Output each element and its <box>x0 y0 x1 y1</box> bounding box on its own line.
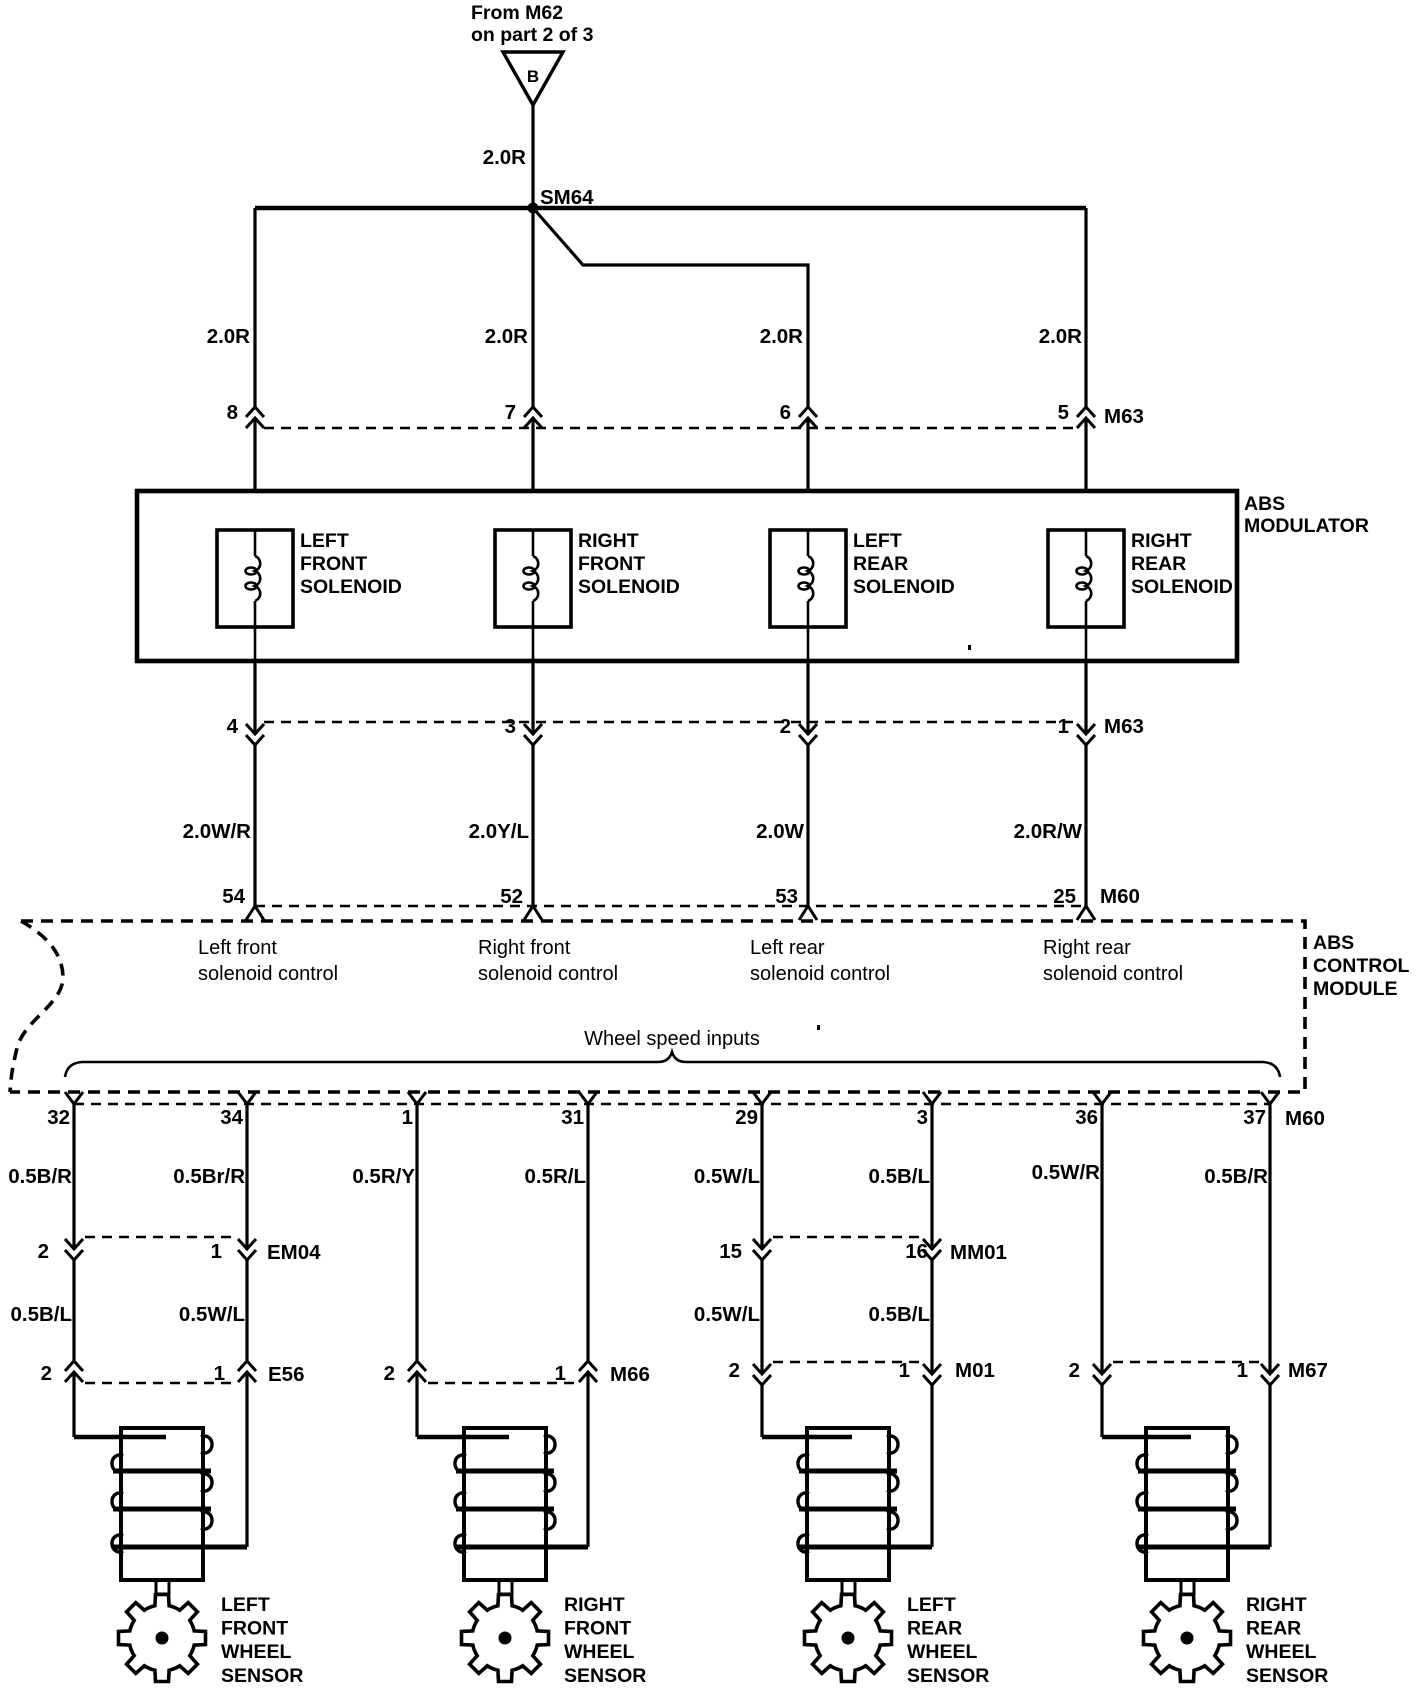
svg-text:2.0R/W: 2.0R/W <box>1014 820 1083 843</box>
svg-text:RIGHT: RIGHT <box>1131 530 1192 552</box>
svg-text:SOLENOID: SOLENOID <box>1131 576 1233 598</box>
connector MM01 pin 15 <box>753 1239 771 1260</box>
svg-text:WHEEL: WHEEL <box>907 1641 978 1663</box>
svg-text:31: 31 <box>561 1106 584 1129</box>
connector M63 pin 1 <box>1077 724 1095 745</box>
svg-text:FRONT: FRONT <box>578 553 645 575</box>
sensor RIGHT FRONT WHEEL SENSOR tone wheel <box>462 1595 549 1682</box>
brace: wheel speed inputs <box>65 1052 1280 1077</box>
wire: modulator out col 1 <box>253 661 256 734</box>
svg-text:SOLENOID: SOLENOID <box>300 576 402 598</box>
svg-text:0.5W/R: 0.5W/R <box>1032 1161 1101 1184</box>
connector M63 pin 6 <box>799 407 817 428</box>
solenoid coil RIGHT REAR SOLENOID <box>1077 530 1092 661</box>
svg-text:SENSOR: SENSOR <box>1246 1665 1328 1687</box>
svg-text:ABS: ABS <box>1313 932 1354 954</box>
connector M60 pin 32 <box>65 1092 83 1104</box>
svg-text:37: 37 <box>1243 1106 1266 1129</box>
svg-text:2: 2 <box>38 1240 49 1263</box>
svg-text:5: 5 <box>1058 401 1069 424</box>
svg-text:2: 2 <box>384 1362 395 1385</box>
svg-text:0.5R/L: 0.5R/L <box>524 1165 586 1188</box>
svg-text:34: 34 <box>220 1106 243 1129</box>
svg-text:0.5W/L: 0.5W/L <box>179 1303 245 1326</box>
svg-text:0.5Br/R: 0.5Br/R <box>173 1165 245 1188</box>
svg-text:0.5W/L: 0.5W/L <box>694 1165 760 1188</box>
svg-text:LEFT: LEFT <box>853 530 902 552</box>
svg-text:15: 15 <box>719 1240 742 1263</box>
connector M60 pin 3 <box>923 1092 941 1104</box>
wire: from LEFT FRONT WHEEL SENSOR (right lead) <box>245 1372 248 1547</box>
connector M60 pin 52 <box>524 906 542 920</box>
svg-text:0.5B/L: 0.5B/L <box>868 1303 930 1326</box>
sensor LEFT REAR WHEEL SENSOR tone wheel hub dot <box>842 1632 855 1645</box>
connector M60 pin 34 <box>238 1092 256 1104</box>
connector M60 pin 25 <box>1077 906 1095 920</box>
svg-text:29: 29 <box>735 1106 758 1129</box>
connector M67 pin 2 <box>1093 1364 1111 1385</box>
svg-text:1: 1 <box>1058 715 1069 738</box>
connector M63 pin 8 <box>246 407 264 428</box>
svg-text:WHEEL: WHEEL <box>221 1641 292 1663</box>
svg-text:SENSOR: SENSOR <box>907 1665 989 1687</box>
sensor LEFT FRONT WHEEL SENSOR stem <box>156 1580 169 1594</box>
sensor LEFT REAR WHEEL SENSOR winding <box>799 1471 932 1547</box>
wire: bus drop to pin 8 <box>253 208 256 407</box>
scan speck <box>968 645 971 650</box>
svg-text:Wheel speed inputs: Wheel speed inputs <box>584 1028 760 1050</box>
connector MM01 pin 16 <box>923 1239 941 1260</box>
svg-text:Right front: Right front <box>478 937 571 959</box>
svg-text:M01: M01 <box>955 1359 995 1382</box>
svg-text:solenoid control: solenoid control <box>750 963 890 985</box>
wire: RIGHT FRONT WHEEL SENSOR left lead horizontal <box>417 1435 509 1440</box>
svg-text:solenoid control: solenoid control <box>478 963 618 985</box>
connector M60 dashed line (module bottom) <box>74 1103 1270 1106</box>
sensor RIGHT REAR WHEEL SENSOR stem <box>1181 1580 1194 1594</box>
svg-text:1: 1 <box>214 1362 225 1385</box>
connector M66 dashed line <box>428 1382 577 1385</box>
connector M63 pin 2 <box>799 724 817 745</box>
svg-text:1: 1 <box>555 1362 566 1385</box>
svg-text:54: 54 <box>222 885 245 908</box>
svg-text:LEFT: LEFT <box>907 1594 956 1616</box>
solenoid coil LEFT FRONT SOLENOID <box>246 530 261 661</box>
wire: modulator out col 3 <box>806 661 809 734</box>
wire: 0.5B/L <box>930 1104 933 1248</box>
wire: 0.5R/Y <box>415 1104 418 1361</box>
svg-text:0.5B/L: 0.5B/L <box>868 1165 930 1188</box>
solenoid RIGHT FRONT SOLENOID box <box>495 530 571 627</box>
connector E56 pin 2 <box>65 1361 83 1382</box>
wire: modulator out col 4 <box>1084 661 1087 734</box>
wire: to RIGHT REAR WHEEL SENSOR (left lead) <box>1100 1385 1103 1437</box>
connector M63 pin 3 <box>524 724 542 745</box>
wire: from RIGHT REAR WHEEL SENSOR (right lead) <box>1268 1385 1271 1547</box>
solenoid coil RIGHT FRONT SOLENOID <box>524 530 539 661</box>
wire: pin into ABS modulator col 1 <box>253 418 256 493</box>
connector M63 pin 4 <box>246 724 264 745</box>
sensor LEFT REAR WHEEL SENSOR tone wheel <box>805 1595 892 1682</box>
svg-text:1: 1 <box>899 1359 910 1382</box>
svg-text:2.0R: 2.0R <box>485 325 528 348</box>
svg-text:SENSOR: SENSOR <box>221 1665 303 1687</box>
svg-text:2: 2 <box>780 715 791 738</box>
wire: 0.5B/R <box>72 1104 75 1248</box>
sensor RIGHT FRONT WHEEL SENSOR stem <box>499 1580 512 1594</box>
svg-text:32: 32 <box>47 1106 70 1129</box>
splice SM64 junction dot <box>528 203 539 214</box>
sensor LEFT FRONT WHEEL SENSOR tone wheel hub dot <box>156 1632 169 1645</box>
svg-text:36: 36 <box>1075 1106 1098 1129</box>
wire: 2.0R/W to control module <box>1084 745 1087 906</box>
svg-text:WHEEL: WHEEL <box>1246 1641 1317 1663</box>
svg-text:RIGHT: RIGHT <box>578 530 639 552</box>
connector M60 pin 53 <box>799 906 817 920</box>
connector M67 pin 1 <box>1261 1364 1279 1385</box>
svg-text:0.5B/R: 0.5B/R <box>1204 1165 1268 1188</box>
svg-text:EM04: EM04 <box>267 1241 321 1264</box>
svg-text:1: 1 <box>211 1240 222 1263</box>
off-page connector triangle B <box>503 52 563 105</box>
wire: from RIGHT FRONT WHEEL SENSOR (right lead) <box>586 1372 589 1547</box>
svg-text:LEFT: LEFT <box>300 530 349 552</box>
connector M63 dashed line (lower row) <box>264 721 1077 724</box>
wire: LEFT FRONT WHEEL SENSOR left lead horizontal <box>74 1435 166 1440</box>
svg-text:3: 3 <box>917 1106 928 1129</box>
svg-text:Left rear: Left rear <box>750 937 825 959</box>
svg-text:1: 1 <box>1237 1359 1248 1382</box>
svg-text:1: 1 <box>402 1106 413 1129</box>
svg-text:0.5B/L: 0.5B/L <box>10 1303 72 1326</box>
svg-text:REAR: REAR <box>907 1618 962 1640</box>
svg-text:M66: M66 <box>610 1363 650 1386</box>
solenoid RIGHT REAR SOLENOID box <box>1048 530 1124 627</box>
wire: 0.5W/L <box>760 1259 763 1374</box>
connector M63 pin 5 <box>1077 407 1095 428</box>
svg-text:0.5R/Y: 0.5R/Y <box>352 1165 415 1188</box>
svg-text:52: 52 <box>500 885 523 908</box>
wire: bus drop to pin 5 <box>1084 208 1087 407</box>
svg-text:6: 6 <box>780 401 791 424</box>
connector EM04 dashed line <box>85 1236 236 1239</box>
svg-text:solenoid control: solenoid control <box>198 963 338 985</box>
svg-text:B: B <box>527 67 539 86</box>
wire: to LEFT FRONT WHEEL SENSOR (left lead) <box>72 1372 75 1437</box>
connector M60 pin 31 <box>579 1092 597 1104</box>
wire: 0.5B/L <box>930 1259 933 1374</box>
svg-text:8: 8 <box>227 401 238 424</box>
wire: 0.5Br/R <box>245 1104 248 1248</box>
svg-text:ABS: ABS <box>1244 493 1285 515</box>
svg-text:53: 53 <box>775 885 798 908</box>
svg-text:SENSOR: SENSOR <box>564 1665 646 1687</box>
svg-text:3: 3 <box>505 715 516 738</box>
svg-text:0.5B/R: 0.5B/R <box>8 1165 72 1188</box>
wire: feed from triangle B down to pin 7 (2.0R) <box>531 105 534 407</box>
svg-text:SOLENOID: SOLENOID <box>853 576 955 598</box>
svg-text:M67: M67 <box>1288 1359 1328 1382</box>
sensor RIGHT REAR WHEEL SENSOR winding <box>1138 1471 1270 1547</box>
connector M60 pin 29 <box>753 1092 771 1104</box>
svg-text:2.0W: 2.0W <box>756 820 804 843</box>
wire: RIGHT REAR WHEEL SENSOR left lead horizontal <box>1102 1435 1191 1440</box>
svg-text:25: 25 <box>1053 885 1076 908</box>
connector M60 pin 54 <box>246 906 264 920</box>
svg-text:REAR: REAR <box>853 553 908 575</box>
wire: pin into ABS modulator col 2 <box>531 418 534 493</box>
solenoid LEFT REAR SOLENOID box <box>770 530 846 627</box>
svg-text:2.0R: 2.0R <box>760 325 803 348</box>
ABS modulator box <box>137 491 1237 661</box>
wire: 0.5B/R <box>1268 1104 1271 1374</box>
connector E56 dashed line <box>85 1382 236 1385</box>
wire: to LEFT REAR WHEEL SENSOR (left lead) <box>760 1385 763 1437</box>
svg-text:0.5W/L: 0.5W/L <box>694 1303 760 1326</box>
svg-text:MODULATOR: MODULATOR <box>1244 515 1369 537</box>
wire: 0.5B/L <box>72 1259 75 1361</box>
sensor RIGHT FRONT WHEEL SENSOR body <box>464 1428 546 1580</box>
connector M01 dashed line <box>773 1361 921 1364</box>
wire: SM64 horizontal bus <box>255 206 1086 211</box>
svg-text:2.0R: 2.0R <box>483 146 526 169</box>
wire: 0.5W/L <box>245 1259 248 1361</box>
connector M67 dashed line <box>1113 1361 1259 1364</box>
wire: LEFT REAR WHEEL SENSOR left lead horizontal <box>762 1435 852 1440</box>
sensor LEFT FRONT WHEEL SENSOR tone wheel <box>119 1595 206 1682</box>
svg-text:FRONT: FRONT <box>221 1618 288 1640</box>
connector M63 pin 7 <box>524 407 542 428</box>
wire: from LEFT REAR WHEEL SENSOR (right lead) <box>930 1385 933 1547</box>
sensor LEFT FRONT WHEEL SENSOR winding <box>113 1471 247 1547</box>
svg-text:SM64: SM64 <box>540 186 594 209</box>
ABS control module dashed box <box>10 921 1305 1092</box>
wire: to RIGHT FRONT WHEEL SENSOR (left lead) <box>415 1372 418 1437</box>
connector MM01 dashed line <box>773 1236 921 1239</box>
wire: modulator out col 2 <box>531 661 534 734</box>
sensor RIGHT FRONT WHEEL SENSOR winding <box>456 1471 588 1547</box>
svg-text:REAR: REAR <box>1131 553 1186 575</box>
svg-text:2: 2 <box>729 1359 740 1382</box>
svg-text:MM01: MM01 <box>950 1241 1007 1264</box>
connector M63 dashed line (upper row) <box>264 427 1077 430</box>
svg-text:2.0R: 2.0R <box>1039 325 1082 348</box>
svg-text:WHEEL: WHEEL <box>564 1641 635 1663</box>
svg-text:M63: M63 <box>1104 405 1144 428</box>
connector EM04 pin 1 <box>238 1239 256 1260</box>
sensor LEFT REAR WHEEL SENSOR stem <box>842 1580 855 1594</box>
wire: pin into ABS modulator col 4 <box>1084 418 1087 493</box>
svg-text:on part 2 of 3: on part 2 of 3 <box>471 24 594 46</box>
connector M60 pin 37 <box>1261 1092 1279 1104</box>
connector M60 pin 1 <box>408 1092 426 1104</box>
svg-text:RIGHT: RIGHT <box>564 1594 625 1616</box>
svg-text:M60: M60 <box>1285 1107 1325 1130</box>
svg-text:RIGHT: RIGHT <box>1246 1594 1307 1616</box>
connector M01 pin 2 <box>753 1364 771 1385</box>
svg-text:2.0R: 2.0R <box>207 325 250 348</box>
connector EM04 pin 2 <box>65 1239 83 1260</box>
wire: 0.5W/R <box>1100 1104 1103 1374</box>
scan speck <box>817 1025 820 1030</box>
sensor RIGHT REAR WHEEL SENSOR body <box>1146 1428 1228 1580</box>
svg-text:solenoid control: solenoid control <box>1043 963 1183 985</box>
sensor RIGHT REAR WHEEL SENSOR tone wheel <box>1144 1595 1231 1682</box>
svg-text:Left front: Left front <box>198 937 277 959</box>
svg-text:E56: E56 <box>268 1363 304 1386</box>
wire: 2.0W/R to control module <box>253 745 256 906</box>
svg-text:2: 2 <box>1069 1359 1080 1382</box>
sensor RIGHT REAR WHEEL SENSOR tone wheel hub dot <box>1181 1632 1194 1645</box>
solenoid LEFT FRONT SOLENOID box <box>217 530 293 627</box>
svg-text:7: 7 <box>505 401 516 424</box>
sensor RIGHT FRONT WHEEL SENSOR tone wheel hub dot <box>499 1632 512 1645</box>
wire: pin into ABS modulator col 3 <box>806 418 809 493</box>
svg-text:SOLENOID: SOLENOID <box>578 576 680 598</box>
wire: 0.5R/L <box>586 1104 589 1361</box>
wire: 0.5W/L <box>760 1104 763 1248</box>
wire: 2.0Y/L to control module <box>531 745 534 906</box>
wire: 2.0W to control module <box>806 745 809 906</box>
svg-text:2: 2 <box>41 1362 52 1385</box>
sensor LEFT REAR WHEEL SENSOR body <box>807 1428 889 1580</box>
svg-text:Right rear: Right rear <box>1043 937 1131 959</box>
connector E56 pin 1 <box>238 1361 256 1382</box>
connector M60 dashed line (module top) <box>255 905 1086 908</box>
sensor LEFT FRONT WHEEL SENSOR body <box>121 1428 203 1580</box>
svg-text:MODULE: MODULE <box>1313 978 1398 1000</box>
connector M60 pin 36 <box>1093 1092 1111 1104</box>
solenoid coil LEFT REAR SOLENOID <box>799 530 814 661</box>
svg-text:2.0W/R: 2.0W/R <box>183 820 252 843</box>
svg-text:From M62: From M62 <box>471 2 563 24</box>
wire: SM64 branch to pin 6 <box>533 208 808 407</box>
connector M66 pin 2 <box>408 1361 426 1382</box>
connector M66 pin 1 <box>579 1361 597 1382</box>
svg-text:4: 4 <box>227 715 239 738</box>
connector M01 pin 1 <box>923 1364 941 1385</box>
svg-text:M63: M63 <box>1104 715 1144 738</box>
svg-text:FRONT: FRONT <box>564 1618 631 1640</box>
svg-text:2.0Y/L: 2.0Y/L <box>469 820 529 843</box>
svg-text:FRONT: FRONT <box>300 553 367 575</box>
svg-text:REAR: REAR <box>1246 1618 1301 1640</box>
svg-text:CONTROL: CONTROL <box>1313 955 1409 977</box>
svg-text:M60: M60 <box>1100 885 1140 908</box>
svg-text:LEFT: LEFT <box>221 1594 270 1616</box>
svg-text:16: 16 <box>905 1240 928 1263</box>
